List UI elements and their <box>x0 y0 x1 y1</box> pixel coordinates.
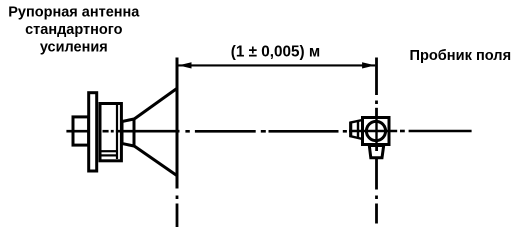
svg-text:стандартного: стандартного <box>25 22 122 38</box>
svg-text:Рупорная антенна: Рупорная антенна <box>8 5 140 21</box>
svg-text:Пробник поля: Пробник поля <box>409 48 511 64</box>
svg-text:усиления: усиления <box>40 39 108 55</box>
svg-text:(1 ± 0,005) м: (1 ± 0,005) м <box>231 43 320 60</box>
